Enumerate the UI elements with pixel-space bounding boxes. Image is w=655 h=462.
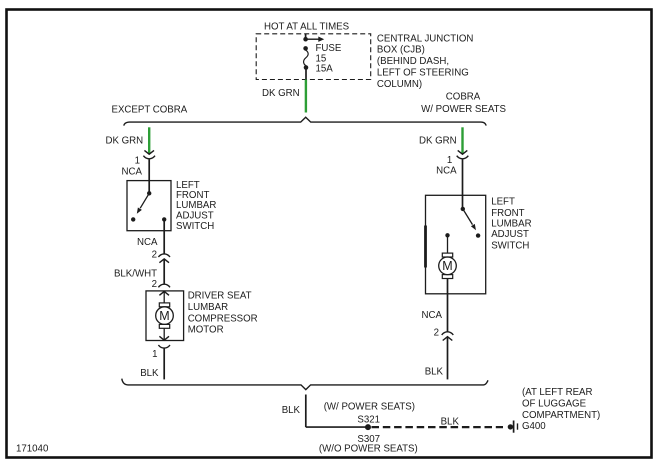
node fuse lower terminal	[304, 65, 309, 70]
connector pin arrow (right lower)	[443, 337, 453, 341]
svg-text:LEFT: LEFT	[491, 197, 515, 208]
svg-text:FUSE: FUSE	[316, 43, 342, 54]
svg-text:SWITCH: SWITCH	[176, 221, 214, 232]
svg-text:OF LUGGAGE: OF LUGGAGE	[522, 399, 587, 410]
wire feed into fuse	[305, 34, 307, 39]
svg-text:BLK: BLK	[441, 416, 460, 427]
motor pin arrow (bottom, inside box)	[159, 336, 169, 340]
svg-text:NCA: NCA	[422, 310, 443, 321]
svg-text:2: 2	[152, 250, 157, 261]
wire fuse to box edge	[305, 68, 307, 80]
svg-text:LUMBAR: LUMBAR	[491, 219, 531, 230]
svg-text:W/ POWER SEATS: W/ POWER SEATS	[421, 104, 506, 115]
switch common node (left switch)	[147, 191, 151, 195]
svg-text:DK GRN: DK GRN	[262, 88, 300, 99]
svg-text:NCA: NCA	[137, 237, 158, 248]
wire pin to motor	[163, 291, 165, 303]
motor M1	[156, 303, 174, 328]
switch contact right	[162, 217, 166, 221]
svg-text:DK GRN: DK GRN	[419, 136, 457, 147]
connector pin arrow (below left switch)	[159, 259, 169, 263]
svg-text:(W/O POWER SEATS): (W/O POWER SEATS)	[319, 444, 418, 455]
svg-text:NCA: NCA	[122, 167, 143, 178]
svg-text:1: 1	[447, 155, 452, 166]
wire BLK (right)	[447, 337, 449, 379]
svg-text:FRONT: FRONT	[491, 208, 524, 219]
svg-text:SWITCH: SWITCH	[491, 240, 529, 251]
connector socket (below motor box)	[158, 345, 170, 348]
motor pin arrow (top, inside box)	[159, 291, 169, 295]
svg-text:S321: S321	[357, 414, 380, 425]
svg-text:171040: 171040	[16, 444, 49, 455]
wire DK GRN green (right branch)	[461, 127, 463, 153]
svg-text:COBRA: COBRA	[446, 91, 481, 102]
motor M2 (inside right switch box)	[439, 253, 457, 278]
node junction at fuse top	[303, 37, 308, 42]
wire BLK/WHT	[163, 259, 165, 284]
svg-text:COLUMN): COLUMN)	[377, 79, 422, 90]
splice node S321/S307	[365, 424, 371, 430]
svg-text:1: 1	[152, 349, 157, 360]
svg-text:(BEHIND DASH,: (BEHIND DASH,	[377, 56, 449, 67]
svg-text:M: M	[159, 309, 169, 323]
connector socket (above motor)	[158, 284, 170, 287]
svg-text:2: 2	[434, 328, 439, 339]
wire bus to splice	[305, 395, 307, 428]
svg-text:BLK: BLK	[425, 367, 444, 378]
wire contact to motor (right)	[447, 235, 449, 253]
CJB label	[377, 33, 474, 90]
right switch label	[491, 197, 531, 252]
svg-text:M: M	[442, 259, 452, 273]
svg-text:(AT LEFT REAR: (AT LEFT REAR	[522, 387, 593, 398]
wire DK GRN green (left branch)	[148, 127, 150, 153]
wire DK GRN (green) from CJB	[305, 80, 307, 113]
feed arrow	[306, 37, 325, 42]
wire connector to switch (right)	[462, 159, 464, 209]
svg-text:BOX (CJB): BOX (CJB)	[377, 45, 425, 56]
central junction box (dashed)	[256, 34, 371, 80]
ground location label	[522, 387, 600, 421]
svg-text:EXCEPT COBRA: EXCEPT COBRA	[112, 105, 188, 116]
svg-text:(W/ POWER SEATS): (W/ POWER SEATS)	[324, 402, 415, 413]
svg-text:MOTOR: MOTOR	[188, 325, 224, 336]
label COBRA W/ POWER SEATS	[421, 91, 506, 115]
svg-text:COMPARTMENT): COMPARTMENT)	[522, 410, 600, 421]
fuse 15 15A	[304, 50, 309, 66]
top bus brace	[124, 117, 486, 125]
svg-text:1: 1	[135, 156, 140, 167]
switch arm (right switch)	[463, 209, 476, 230]
switch arm (left switch)	[137, 193, 149, 214]
wire motor out through box bottom	[447, 279, 449, 332]
connector C251 pin arrow (left)	[144, 150, 154, 154]
wire BLK (left)	[163, 349, 165, 380]
svg-text:DK GRN: DK GRN	[106, 136, 144, 147]
connector socket (below left switch)	[158, 254, 170, 257]
svg-text:BLK: BLK	[282, 405, 301, 416]
connector socket (right)	[457, 156, 469, 159]
switch contact left	[131, 217, 135, 221]
wire motor to pin	[163, 328, 165, 340]
svg-text:2: 2	[152, 279, 157, 290]
motor label	[188, 291, 258, 336]
switch contact right (right switch)	[476, 233, 480, 237]
left front lumbar adjust switch box	[127, 181, 171, 231]
svg-text:NCA: NCA	[436, 166, 457, 177]
svg-text:DRIVER SEAT: DRIVER SEAT	[188, 291, 252, 302]
bottom bus brace	[122, 379, 488, 390]
svg-text:COMPRESSOR: COMPRESSOR	[188, 313, 258, 324]
svg-text:BLK/WHT: BLK/WHT	[114, 269, 157, 280]
wire connector to switch	[148, 159, 150, 193]
svg-text:CENTRAL JUNCTION: CENTRAL JUNCTION	[377, 33, 474, 44]
ground G400	[508, 421, 518, 433]
node fuse upper terminal	[303, 46, 308, 51]
switch common node (right switch)	[461, 207, 465, 211]
left switch label	[176, 180, 216, 232]
wire switch output	[163, 219, 165, 253]
wire to splice S321	[306, 426, 368, 428]
svg-text:LUMBAR: LUMBAR	[188, 302, 228, 313]
connector pin arrow (right)	[458, 150, 468, 154]
right box thick edge segment	[424, 226, 427, 268]
svg-text:15A: 15A	[316, 64, 334, 75]
fuse value label	[316, 43, 342, 75]
driver seat lumbar compressor motor box	[146, 291, 184, 341]
svg-text:BLK: BLK	[140, 368, 159, 379]
svg-text:HOT AT ALL TIMES: HOT AT ALL TIMES	[264, 22, 350, 33]
switch contact to motor (right switch)	[445, 233, 449, 237]
connector socket (right lower)	[442, 332, 454, 335]
svg-text:G400: G400	[522, 421, 546, 432]
svg-text:ADJUST: ADJUST	[491, 229, 529, 240]
connector C251 socket (left)	[143, 156, 155, 159]
svg-text:LEFT OF STEERING: LEFT OF STEERING	[377, 68, 469, 79]
wire BLK dashed to G400	[372, 426, 504, 428]
svg-text:ADJUST: ADJUST	[176, 210, 214, 221]
right switch box	[426, 195, 486, 293]
